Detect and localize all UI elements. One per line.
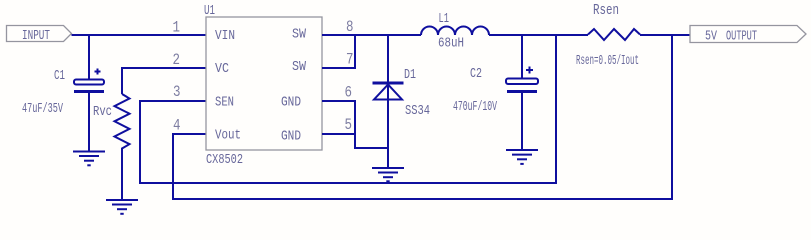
- svg-text:CX8502: CX8502: [206, 152, 243, 168]
- svg-text:VIN: VIN: [215, 28, 235, 44]
- svg-text:2: 2: [173, 51, 181, 69]
- resistor Rvc: [93, 94, 130, 151]
- svg-text:SEN: SEN: [215, 95, 234, 111]
- svg-text:1: 1: [173, 19, 181, 37]
- wire inductor to Rsen node: [489, 34, 588, 36]
- svg-text:SW: SW: [292, 59, 306, 75]
- wire Rsen to output port: [640, 34, 690, 36]
- svg-text:U1: U1: [204, 3, 215, 19]
- capacitor C1: [22, 68, 104, 117]
- wire C2 branch down from output rail: [521, 34, 523, 79]
- diode D1 SS34: [373, 67, 431, 119]
- svg-text:7: 7: [346, 51, 354, 69]
- svg-text:GND: GND: [281, 129, 301, 145]
- svg-text:D1: D1: [404, 67, 416, 83]
- svg-text:Vout: Vout: [215, 128, 241, 144]
- svg-text:5V: 5V: [705, 29, 717, 45]
- svg-text:3: 3: [173, 83, 181, 101]
- wire pin3 SEN stub and sense return to Rsen left node: [140, 34, 556, 183]
- wire Rvc to ground: [121, 151, 123, 200]
- svg-text:Rvc: Rvc: [93, 104, 112, 120]
- inductor L1 68uH: [421, 11, 489, 52]
- wire pin5 GND stub joining pin6 and diode ground: [322, 100, 388, 148]
- wire SW node down through D1 to ground: [387, 34, 389, 168]
- ground under C1: [73, 152, 105, 166]
- svg-text:C1: C1: [54, 68, 65, 84]
- svg-text:4: 4: [173, 117, 181, 135]
- svg-text:47uF/35V: 47uF/35V: [22, 101, 63, 117]
- svg-text:GND: GND: [281, 95, 301, 111]
- wire pin8 SW rail to inductor: [322, 34, 421, 36]
- wire pin6 GND stub: [322, 100, 355, 102]
- capacitor C2: [453, 66, 538, 115]
- ground under C2: [506, 150, 538, 164]
- svg-text:SS34: SS34: [405, 103, 430, 119]
- svg-text:Rsen=0.05/Iout: Rsen=0.05/Iout: [576, 53, 639, 69]
- svg-text:8: 8: [346, 18, 354, 36]
- svg-text:SW: SW: [292, 27, 306, 43]
- svg-text:Rsen: Rsen: [593, 3, 619, 19]
- op-amp U1 IC box CX8502: [204, 3, 322, 168]
- svg-text:5: 5: [345, 116, 353, 134]
- svg-text:C2: C2: [470, 66, 482, 82]
- wire pin7 SW stub joining pin8 rail: [322, 34, 355, 68]
- wire C2 to ground: [521, 92, 523, 150]
- svg-text:OUTPUT: OUTPUT: [726, 29, 757, 45]
- svg-text:6: 6: [345, 84, 353, 102]
- resistor Rsen: [576, 3, 640, 69]
- svg-text:INPUT: INPUT: [22, 28, 50, 44]
- wire pin4 Vout stub and sense return to output node: [173, 34, 672, 199]
- svg-text:68uH: 68uH: [438, 36, 464, 52]
- ground under Rvc: [106, 200, 138, 214]
- wire C1 to ground: [88, 92, 90, 152]
- svg-text:470uF/10V: 470uF/10V: [453, 99, 497, 115]
- wire pin2 VC stub and drop to Rvc: [122, 68, 206, 94]
- svg-text:L1: L1: [439, 11, 450, 27]
- wire input rail to pin1 VIN: [72, 34, 207, 36]
- ground under D1: [372, 168, 404, 181]
- port INPUT: [7, 26, 72, 45]
- svg-text:VC: VC: [215, 61, 229, 77]
- port 5V OUTPUT: [690, 26, 806, 45]
- wire C1 branch down from input rail: [88, 34, 90, 80]
